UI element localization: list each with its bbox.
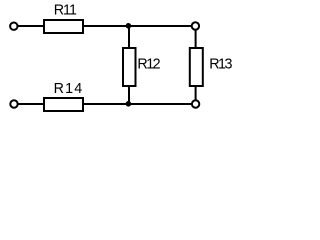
terminal: bottom-right port xyxy=(192,100,199,107)
junction: bottom node dot xyxy=(126,101,132,107)
resistor R13 xyxy=(190,48,203,86)
resistor R12 xyxy=(123,48,136,86)
wire: bottom horizontal net xyxy=(14,103,196,105)
svg-text:R14: R14 xyxy=(54,81,83,97)
wire: R13 vertical branch xyxy=(195,26,197,104)
terminal: top-left port xyxy=(10,23,17,30)
terminal: top-right port xyxy=(192,22,199,29)
wire: R12 vertical branch xyxy=(128,26,130,104)
resistor R11 xyxy=(44,20,83,33)
svg-text:R13: R13 xyxy=(209,57,232,73)
terminal: bottom-left port xyxy=(10,100,17,107)
svg-text:R11: R11 xyxy=(54,3,77,19)
junction: top node dot xyxy=(126,23,132,29)
wire: top horizontal net xyxy=(14,25,196,27)
svg-text:R12: R12 xyxy=(137,57,160,73)
resistor R14 xyxy=(44,98,83,111)
